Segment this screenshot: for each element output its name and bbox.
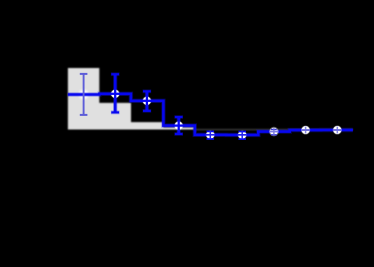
marker P1 soft white glow — [79, 90, 88, 99]
error bar P5 shaft — [209, 131, 211, 139]
error bar P6 shaft — [241, 132, 243, 140]
bright cross over circle P4 — [174, 121, 184, 130]
caps+cross over circle P7 — [269, 128, 278, 135]
error bar P3 (thick bright) — [143, 91, 152, 112]
blue step line halo — [68, 94, 353, 135]
bright cross over circle P2 — [110, 89, 120, 98]
error bar P1 (thin light) — [80, 74, 88, 115]
error bar P7 shaft — [273, 129, 275, 135]
caps+cross over circle P6 — [238, 131, 247, 139]
error bar P2 (thick bright) — [111, 74, 120, 113]
thin cross over circle P9 — [333, 127, 342, 134]
bright cross over circle P3 — [142, 96, 152, 105]
caps+cross over circle P5 — [206, 131, 215, 139]
error bar P4 (thick bright) — [174, 117, 183, 135]
dim gray histogram sliver (tiny bins) — [195, 129, 353, 130]
blue step line — [68, 94, 353, 135]
thin cross over circle P8 — [301, 127, 310, 134]
gray stepped histogram fill — [68, 68, 195, 130]
white circle markers P2-P9 — [111, 89, 342, 139]
